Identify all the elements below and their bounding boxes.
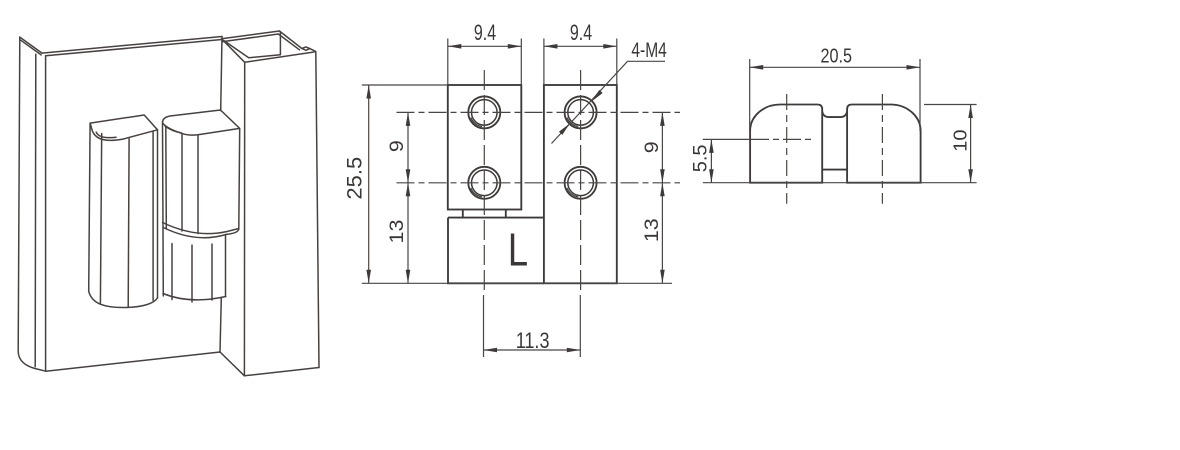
panel top edge double line — [42, 37, 222, 54]
hole bottom-left thread arc — [471, 188, 482, 197]
svg-text:L: L — [508, 223, 528, 275]
left hinge leaf seam b — [127, 139, 130, 307]
panel to tube bottom diagonal — [220, 352, 244, 376]
arrow 11.3 left — [484, 348, 498, 353]
svg-text:10: 10 — [951, 129, 971, 151]
panel fold top diagonal inner — [21, 40, 41, 55]
hole top-left outer — [468, 96, 500, 128]
arrow 9.4 right a — [544, 44, 558, 49]
arrow 4-M4 upper — [590, 90, 603, 103]
tube inner opening bottom edge — [249, 55, 281, 58]
left hinge leaf top face inner arc — [96, 132, 116, 137]
centerline vertical left extension — [483, 295, 485, 357]
arrows 9/13 left middle — [406, 169, 411, 183]
arrow 10 top — [968, 105, 973, 119]
hole bottom-left outer — [468, 167, 500, 199]
svg-text:9.4: 9.4 — [474, 20, 496, 45]
dim 9.4 left line — [448, 45, 522, 47]
right barrel block — [847, 105, 921, 183]
knuckle right edge — [225, 235, 227, 297]
right hinge leaf left edge — [162, 123, 165, 296]
svg-text:11.3: 11.3 — [516, 329, 550, 353]
centerline vertical right barrel — [881, 94, 883, 204]
dim 20.5 line — [750, 66, 920, 68]
left plate — [448, 85, 522, 210]
panel left outer edge — [18, 37, 46, 371]
top extension line left — [362, 84, 448, 86]
left hinge leaf right edge double — [152, 131, 154, 300]
panel right edge upper — [221, 37, 222, 111]
hole top-right thread arc — [567, 118, 578, 127]
hinge collar curves — [163, 223, 239, 234]
centerline vertical right — [580, 70, 582, 295]
centerline vertical right extension — [579, 295, 581, 357]
tube rim front-left outer edge — [222, 39, 245, 63]
tube outer rim top-left edge — [222, 31, 280, 39]
hole top-left thread arc — [471, 118, 482, 127]
tube front-left edge — [243, 62, 245, 376]
arrow 25.5 top — [366, 85, 371, 99]
tube bottom edge — [244, 368, 319, 376]
centerline horizontal lower — [397, 182, 681, 184]
arrow 5.5 bottom — [709, 169, 714, 183]
svg-text:25.5: 25.5 — [342, 157, 366, 200]
texts middle view — [342, 20, 667, 353]
arrow 9.4 right b — [603, 44, 617, 49]
arrow 13 left bottom — [406, 270, 411, 284]
arrow 5.5 top — [709, 139, 714, 153]
arrow 10 bottom — [968, 169, 973, 183]
tube inner opening left diagonal — [224, 41, 249, 58]
right hinge leaf top face inner arc — [165, 126, 181, 132]
right hinge leaf top face — [162, 110, 239, 135]
left barrel block — [750, 105, 822, 183]
knuckle step right — [505, 210, 507, 218]
centerline horizontal upper — [397, 111, 681, 113]
dim line 9-13 left — [407, 112, 409, 283]
dim 20.5 ext lines — [750, 59, 920, 131]
knuckle bottom — [163, 294, 226, 300]
arrow 13 right bottom — [660, 270, 665, 284]
centerline vertical left — [483, 70, 485, 295]
hole top-right outer — [565, 96, 597, 128]
tube rim front-right top edge — [245, 52, 314, 62]
arrow 20.5 right — [907, 65, 921, 70]
arrow 9 right top — [660, 112, 665, 126]
neck top edge — [822, 112, 847, 118]
hole bottom-right outer — [565, 167, 597, 199]
panel right edge lower — [220, 298, 221, 353]
panel fold top diagonal outer — [20, 37, 42, 53]
dim 11.3 line — [484, 349, 581, 351]
tube left edge lower reappearing — [220, 298, 222, 301]
tube rim corner to right edge — [310, 49, 315, 52]
arrow 9.4 left a — [448, 44, 462, 49]
dim line 25.5 — [368, 85, 370, 283]
dim line 9-13 right — [661, 112, 663, 283]
left hinge leaf bottom — [89, 291, 158, 307]
arrow 4-M4 lower — [559, 122, 572, 135]
hole top-left inner — [472, 100, 498, 126]
svg-text:9.4: 9.4 — [570, 20, 592, 45]
left hinge leaf seam a — [100, 134, 101, 304]
arrow 20.5 left — [750, 65, 764, 70]
knuckle seam c — [211, 244, 213, 300]
arrow 25.5 bottom — [366, 270, 371, 284]
4-M4 leader — [552, 61, 666, 143]
panel bottom edge — [46, 352, 220, 371]
left hinge leaf left edge — [89, 123, 90, 291]
tube rim corner end-face quad — [302, 47, 310, 50]
svg-text:9: 9 — [386, 140, 408, 152]
dim 9.4 left ext lines — [448, 39, 522, 86]
knuckle step left — [462, 210, 464, 218]
right hinge leaf seam b — [181, 134, 183, 231]
lower block — [448, 218, 544, 284]
svg-text:5.5: 5.5 — [690, 144, 712, 172]
svg-text:4-M4: 4-M4 — [631, 38, 666, 62]
hole top-right inner — [568, 100, 594, 126]
arrow 9.4 left b — [508, 44, 522, 49]
knuckle seam a — [171, 244, 173, 300]
right hinge leaf seam a — [165, 127, 168, 229]
dim 5.5 line — [710, 139, 712, 182]
hole bottom-left inner — [472, 170, 498, 196]
dim 10 ext line — [924, 104, 977, 106]
right hinge leaf right edge — [238, 128, 241, 229]
right plate — [544, 85, 617, 283]
arrowheads middle view — [366, 44, 664, 352]
hole bottom-right inner — [568, 170, 594, 196]
tube rim right-down edge parallel — [278, 34, 299, 50]
svg-text:20.5: 20.5 — [821, 45, 853, 67]
dim 9.4 right line — [544, 45, 617, 47]
svg-text:9: 9 — [641, 141, 663, 153]
neck bottom edge — [822, 169, 847, 171]
arrow 9 left top — [406, 112, 411, 126]
tube rim right-down edge — [279, 31, 302, 49]
tube rim top-left edge parallel — [223, 34, 278, 42]
hole bottom-right thread arc — [567, 188, 578, 197]
dim 9.4 right ext lines — [544, 39, 617, 86]
svg-text:13: 13 — [386, 220, 408, 244]
arrow 11.3 right — [567, 348, 581, 353]
panel fold vertical seam 1 — [34, 54, 37, 367]
centerline vertical left barrel — [786, 94, 788, 204]
centerline horizontal pivot — [703, 138, 751, 140]
arrows 9/13 right middle — [660, 169, 665, 183]
knuckle seam b — [191, 245, 193, 302]
right hinge leaf seam c — [197, 135, 199, 234]
tube inner opening right vertical — [279, 32, 281, 55]
panel fold vertical seam 2 — [45, 56, 47, 371]
left hinge leaf top face — [90, 115, 157, 140]
svg-text:13: 13 — [641, 218, 663, 242]
bottom extension line — [362, 282, 672, 284]
bottom line right view — [703, 182, 977, 184]
hinge collar right hook — [226, 229, 239, 235]
dim 10 line — [970, 105, 972, 183]
tube right edge — [316, 52, 319, 368]
